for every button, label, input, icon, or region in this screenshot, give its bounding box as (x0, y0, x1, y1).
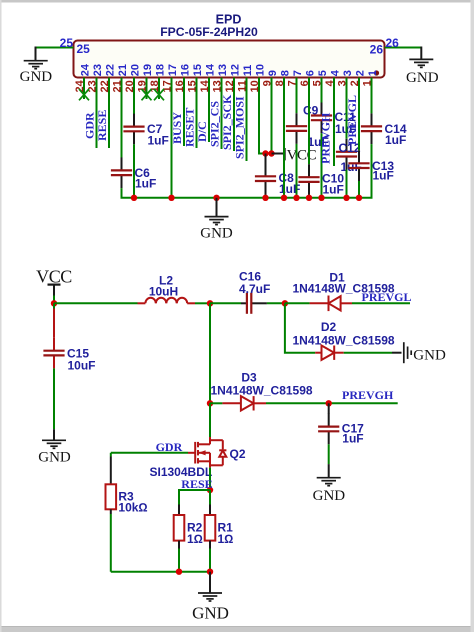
svg-text:2: 2 (355, 70, 367, 76)
capacitor C17 1uF (318, 414, 364, 446)
wire R1 to bottom bus (209, 549, 211, 572)
ground GND top-right (409, 59, 433, 67)
connector EPD body (74, 41, 385, 78)
wire pin 1 upper (371, 78, 373, 114)
wire gate column down (110, 453, 112, 457)
resistor R3 10k (106, 457, 148, 515)
junction bottom bus R1 GND (207, 569, 213, 575)
diode D2 1N4148W_C81598 (315, 346, 344, 360)
svg-text:PREVGH: PREVGH (318, 112, 332, 164)
svg-text:12: 12 (230, 64, 242, 76)
wire pin 1 lower to bus (371, 144, 373, 198)
ground GND top bus (205, 217, 229, 225)
ground GND below C17 (317, 478, 341, 486)
junction bus pin 3 (343, 195, 349, 201)
svg-text:21: 21 (117, 64, 129, 76)
wire pin 21 upper (121, 78, 123, 158)
wire pin 21 lower to bus (121, 188, 123, 198)
resistor R2 1ohm (174, 505, 203, 549)
wire switch node to C16 (210, 302, 241, 304)
svg-text:GND: GND (38, 449, 71, 465)
junction bus pin 8 (281, 195, 287, 201)
wire pin 3 upper (346, 78, 348, 139)
wire R3 to bottom bus (110, 514, 112, 572)
wire switch node to D3 node (209, 303, 211, 403)
svg-text:D2: D2 (321, 320, 337, 334)
junction bus pin 20 (131, 195, 137, 201)
wire pin 14 net D/C (208, 78, 210, 143)
wire pin 15 net RESET (196, 78, 198, 149)
svg-text:PREVGL: PREVGL (362, 290, 412, 304)
transistor Q2 SI1304BDL (188, 437, 226, 468)
svg-text:7: 7 (292, 70, 304, 76)
wire pin 4 net PREVGH (333, 78, 335, 167)
junction bus pin 7 (293, 195, 299, 201)
svg-text:26: 26 (386, 36, 400, 50)
svg-text:RESE: RESE (181, 477, 212, 491)
ground GND bottom (198, 593, 222, 601)
wire node down to D2 (285, 303, 315, 352)
svg-text:1Ω: 1Ω (218, 532, 234, 546)
svg-text:1uF: 1uF (373, 169, 394, 183)
page frame top bar (0, 0, 474, 3)
svg-text:25: 25 (77, 42, 91, 56)
svg-text:GND: GND (200, 226, 233, 242)
svg-text:RESE: RESE (95, 110, 109, 141)
junction bus C8 (262, 195, 268, 201)
wire pin 25 to GND (36, 47, 74, 49)
power port VCC bottom (36, 267, 72, 304)
svg-text:FPC-05F-24PH20: FPC-05F-24PH20 (160, 25, 258, 39)
wire R2 to bottom bus (178, 549, 180, 572)
svg-text:1uF: 1uF (135, 177, 156, 191)
junction D3 node (207, 400, 213, 406)
svg-text:1N4148W_C81598: 1N4148W_C81598 (211, 383, 313, 397)
capacitor C16 4.7uF (239, 269, 270, 314)
wire pin 3 lower to bus (346, 170, 348, 198)
svg-text:3: 3 (342, 70, 354, 76)
capacitor C8 1uF (255, 163, 300, 196)
wire pin 12 net SPI2_SCK (233, 78, 235, 152)
wire pin 26 to GND (385, 47, 422, 49)
wire Q2 gate to R3 (111, 452, 188, 454)
capacitor C13 1uF (348, 150, 394, 182)
wire D3 to PREVGH (266, 402, 398, 404)
svg-text:14: 14 (205, 63, 217, 76)
wire C8 branch upper (265, 154, 267, 167)
pin 1 marker dot inside body (374, 70, 379, 75)
wire pin 13 net SPI2_CS (221, 78, 223, 150)
resistor R1 1ohm (205, 505, 234, 549)
wire C8 branch lower (265, 190, 267, 198)
wire C17 to GND green (328, 444, 330, 464)
capacitor C9 1uF (286, 104, 329, 150)
svg-text:PREVGL: PREVGL (345, 95, 359, 145)
svg-text:1Ω: 1Ω (187, 532, 203, 546)
wire pin 23 net GDR (96, 78, 98, 149)
wire pin 24 stub (83, 78, 85, 100)
svg-text:20: 20 (130, 64, 142, 76)
svg-text:10: 10 (255, 64, 267, 76)
svg-text:18: 18 (155, 64, 167, 76)
capacitor C12 1uF (336, 139, 362, 174)
wire ground bus top section (121, 197, 373, 199)
wire C17 GND lead (328, 464, 330, 477)
junction bus GND tap (213, 195, 219, 201)
junction C17 tap (326, 400, 332, 406)
wire pin 6 lower to bus (308, 195, 310, 198)
no-connect X pin 24 (79, 89, 89, 100)
junction D1 D2 node (282, 300, 288, 306)
junction bus pin 2 (356, 195, 362, 201)
wire RESE to R1 (209, 490, 211, 505)
svg-text:4: 4 (330, 69, 342, 76)
svg-text:GND: GND (313, 488, 346, 504)
svg-text:19: 19 (142, 64, 154, 76)
svg-text:1uF: 1uF (323, 183, 344, 197)
wire bottom bus (111, 571, 210, 573)
wire pin 5 upper (321, 78, 323, 103)
svg-text:1N4148W_C81598: 1N4148W_C81598 (293, 333, 395, 347)
svg-text:1: 1 (367, 70, 379, 76)
junction RESE node (207, 487, 213, 493)
svg-text:8: 8 (280, 70, 292, 76)
wire node to D3 (210, 402, 222, 404)
svg-text:PREVGH: PREVGH (342, 388, 394, 402)
wire D2 GND lead (392, 352, 402, 354)
junction bottom bus R2 (176, 569, 182, 575)
svg-text:22: 22 (105, 64, 117, 76)
wire pin 22 net RESE (108, 78, 110, 149)
svg-text:4.7uF: 4.7uF (239, 282, 270, 296)
wire C17 upper lead (328, 403, 330, 414)
capacitor C6 1uF (111, 157, 156, 190)
wire pin 19 stub (146, 78, 148, 100)
wire GND tap top bus (216, 198, 218, 216)
wire pin 7 upper (296, 78, 298, 114)
capacitor C15 10uF (43, 338, 95, 373)
pin 26 lead (420, 47, 422, 60)
svg-text:5: 5 (317, 70, 329, 76)
svg-text:GND: GND (413, 348, 446, 364)
svg-text:6: 6 (305, 70, 317, 76)
page frame left line (0, 0, 2, 632)
wire VCC node black segment (272, 153, 284, 155)
ground GND below C15 (42, 440, 66, 448)
wire pin 9 to VCC node (271, 78, 273, 154)
wire C15 GND lead (53, 429, 55, 440)
svg-text:23: 23 (92, 64, 104, 76)
svg-text:VCC: VCC (287, 148, 317, 164)
capacitor C7 1uF (123, 114, 168, 148)
wire pin 7 lower to bus (296, 144, 298, 198)
junction bus pin 5 (318, 195, 324, 201)
ground GND top-left (24, 61, 48, 69)
svg-text:SPI2_MOSI: SPI2_MOSI (232, 96, 246, 159)
svg-text:9: 9 (267, 70, 279, 76)
wire C16 to D1 node (267, 302, 285, 304)
diode D3 1N4148W_C81598 (222, 396, 266, 410)
svg-text:25: 25 (60, 36, 74, 50)
svg-text:GND: GND (192, 603, 229, 622)
junction bus pin 6 (306, 195, 312, 201)
wire pin 17 to bus (171, 78, 173, 198)
svg-text:GND: GND (406, 70, 439, 86)
power port VCC top (285, 148, 317, 164)
svg-text:10kΩ: 10kΩ (118, 501, 147, 515)
svg-text:26: 26 (370, 42, 384, 56)
svg-text:15: 15 (192, 64, 204, 76)
svg-text:10uF: 10uF (68, 359, 96, 373)
pin 25 lead (35, 47, 37, 61)
svg-text:GDR: GDR (156, 440, 183, 454)
wire L2 to switch node (195, 302, 210, 304)
wire VCC to L2 (54, 302, 138, 304)
wire D2 to GND (344, 352, 392, 354)
wire RESE to R2 (179, 490, 210, 505)
wire pin 18 stub (158, 78, 160, 100)
wire pin 20 lower to bus (133, 144, 135, 198)
wire pin 5 lower to bus (321, 133, 323, 198)
junction switch node top (207, 300, 213, 306)
pin numbers 24..1 outside body (74, 79, 374, 92)
svg-text:1uF: 1uF (342, 432, 363, 446)
svg-text:24: 24 (80, 63, 92, 76)
wire pin 20 upper (133, 78, 135, 115)
wire node to D1 (285, 302, 310, 304)
svg-text:13: 13 (217, 64, 229, 76)
wire pin 2 net PREVGL upper (358, 78, 360, 151)
no-connect X pin 19 (142, 89, 152, 100)
wire pin 6 upper (308, 78, 310, 165)
capacitor C10 1uF (298, 164, 344, 196)
no-connect X pin 18 (154, 89, 164, 100)
wire pin 16 net BUSY (183, 78, 185, 147)
svg-text:10uH: 10uH (149, 284, 178, 298)
wire pin 2 lower to bus (358, 181, 360, 198)
inductor L2 10uH (138, 273, 196, 303)
wire C15 to GND green (53, 368, 55, 429)
wire VCC to C15 red (53, 309, 55, 338)
wire D3 node to Q2 drain (209, 403, 211, 437)
capacitor C14 1uF (361, 113, 407, 147)
svg-text:GND: GND (20, 69, 53, 85)
page frame right strip (471, 0, 474, 632)
svg-text:Q2: Q2 (230, 447, 246, 461)
junction VCC node (51, 300, 57, 306)
junction bus pin 17 (168, 195, 174, 201)
wire VCC to C15 upper (53, 303, 55, 308)
junction pin 9 VCC (268, 150, 274, 156)
capacitor C11 1uF (311, 103, 356, 137)
wire pin 10 to VCC node (259, 78, 285, 154)
svg-text:16: 16 (180, 64, 192, 76)
svg-text:17: 17 (167, 64, 179, 76)
wire pin 11 net SPI2_MOSI (246, 78, 248, 162)
junction C8 tap VCC (262, 150, 268, 156)
svg-text:1uF: 1uF (385, 133, 406, 147)
wire Q2 source green (209, 468, 211, 490)
svg-text:1uF: 1uF (148, 134, 169, 148)
wire bottom GND lead (209, 572, 211, 593)
ground GND right of D2 (sideways) (404, 342, 411, 363)
diode D1 1N4148W_C81598 (310, 296, 352, 312)
pin numbers 24..1 inside body (80, 63, 380, 76)
wire pin 8 to bus (283, 78, 285, 198)
page frame bottom bar (0, 627, 474, 632)
svg-text:11: 11 (242, 65, 254, 77)
wire D1 to PREVGL (352, 302, 410, 304)
